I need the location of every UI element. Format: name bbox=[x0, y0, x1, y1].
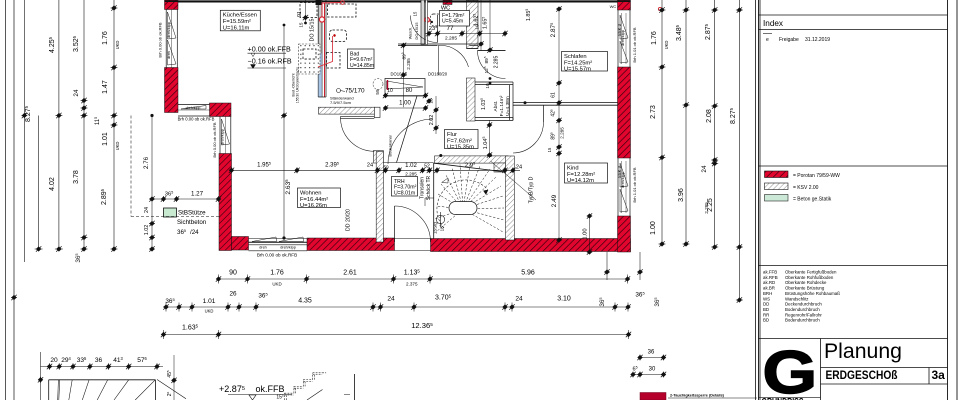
svg-text:20: 20 bbox=[50, 357, 58, 364]
svg-text:2.285: 2.285 bbox=[405, 172, 417, 177]
svg-text:RR: RR bbox=[763, 312, 769, 317]
svg-text:3.78: 3.78 bbox=[73, 170, 80, 184]
svg-text:31.12.2019: 31.12.2019 bbox=[805, 37, 830, 43]
svg-text:F=15.59m²: F=15.59m² bbox=[223, 19, 251, 25]
svg-text:1.00: 1.00 bbox=[650, 221, 657, 235]
svg-text:26: 26 bbox=[229, 291, 237, 298]
svg-text:ak.FFB: ak.FFB bbox=[763, 270, 777, 275]
svg-text:36: 36 bbox=[95, 357, 103, 364]
svg-text:StBStütze: StBStütze bbox=[178, 210, 206, 217]
svg-text:ak.RFB: ak.RFB bbox=[763, 275, 778, 280]
svg-text:15: 15 bbox=[413, 11, 418, 16]
svg-text:5.96: 5.96 bbox=[521, 270, 535, 277]
svg-text:1.02: 1.02 bbox=[405, 163, 417, 169]
svg-text:ERDGESCHOß: ERDGESCHOß bbox=[826, 368, 898, 382]
svg-text:15: 15 bbox=[299, 22, 304, 27]
svg-text:80: 80 bbox=[406, 88, 413, 94]
svg-text:= Beton ge.Statik: = Beton ge.Statik bbox=[793, 197, 832, 203]
svg-text:= KSV 2.00: = KSV 2.00 bbox=[793, 185, 819, 191]
svg-text:Schlafen: Schlafen bbox=[564, 54, 587, 60]
svg-text:1.76: 1.76 bbox=[270, 270, 284, 277]
svg-text:e: e bbox=[766, 37, 769, 43]
svg-text:1.76: 1.76 bbox=[102, 31, 109, 45]
svg-text:dreh/kipp: dreh/kipp bbox=[221, 129, 225, 145]
svg-text:BD: BD bbox=[763, 318, 769, 323]
svg-text:F=7.62m²: F=7.62m² bbox=[447, 138, 472, 144]
svg-text:4.02: 4.02 bbox=[49, 177, 56, 191]
svg-text:2.285: 2.285 bbox=[494, 56, 500, 69]
svg-text:Regenrohr/Fallrohr: Regenrohr/Fallrohr bbox=[785, 312, 822, 317]
svg-text:DD 20/20: DD 20/20 bbox=[346, 209, 352, 231]
svg-text:Küche/Essen: Küche/Essen bbox=[223, 13, 257, 19]
svg-text:24: 24 bbox=[387, 296, 395, 303]
svg-text:2.285: 2.285 bbox=[445, 36, 457, 42]
svg-text:Brh 0.00 ob ok.RFB: Brh 0.00 ob ok.RFB bbox=[212, 122, 217, 157]
svg-text:Wohnen: Wohnen bbox=[300, 190, 322, 196]
svg-text:Wasch.: Wasch. bbox=[409, 27, 413, 40]
svg-text:U=14.12m: U=14.12m bbox=[567, 178, 594, 184]
svg-text:DO 15/15: DO 15/15 bbox=[414, 22, 419, 40]
svg-text:15Stg: 15Stg bbox=[433, 222, 438, 234]
svg-text:F=1.14m²: F=1.14m² bbox=[499, 95, 505, 116]
svg-text:U=16.11m: U=16.11m bbox=[223, 26, 250, 32]
svg-text:= Porotan 79/59-WW: = Porotan 79/59-WW bbox=[793, 173, 840, 179]
svg-text:1.47: 1.47 bbox=[102, 80, 109, 94]
svg-text:75/170: 75/170 bbox=[345, 88, 365, 95]
svg-text:Brh 0.00 ob ok.RFB: Brh 0.00 ob ok.RFB bbox=[257, 253, 297, 258]
svg-text:1.01: 1.01 bbox=[102, 132, 109, 146]
svg-text:DO160/20: DO160/20 bbox=[428, 72, 448, 77]
svg-text:dreh: dreh bbox=[259, 246, 267, 250]
svg-text:61: 61 bbox=[551, 92, 557, 98]
svg-text:2.285: 2.285 bbox=[560, 127, 565, 139]
svg-text:Schöck TR: Schöck TR bbox=[426, 175, 432, 200]
svg-text:1.00: 1.00 bbox=[583, 228, 589, 239]
svg-text:1.00: 1.00 bbox=[399, 101, 411, 107]
svg-text:Deckendurchbruch: Deckendurchbruch bbox=[785, 302, 822, 307]
svg-text:1.02: 1.02 bbox=[144, 225, 150, 236]
svg-text:U=4.38m: U=4.38m bbox=[505, 96, 511, 116]
svg-text:WS: WS bbox=[763, 296, 770, 301]
svg-text:U=16.26m: U=16.26m bbox=[300, 203, 327, 209]
svg-text:2.375: 2.375 bbox=[406, 282, 418, 287]
svg-text:Brüstungshöhe Rohbaumaß: Brüstungshöhe Rohbaumaß bbox=[785, 291, 840, 296]
svg-text:2.61: 2.61 bbox=[343, 270, 357, 277]
svg-text:155:30 UK30(elektrisch): 155:30 UK30(elektrisch) bbox=[296, 67, 300, 103]
svg-text:WC: WC bbox=[610, 4, 617, 9]
svg-text:Planung: Planung bbox=[824, 339, 902, 363]
svg-text:3.96: 3.96 bbox=[678, 188, 685, 202]
svg-text:UKD: UKD bbox=[205, 309, 214, 314]
svg-text:15: 15 bbox=[547, 147, 552, 152]
svg-text:24: 24 bbox=[701, 165, 708, 173]
svg-text:Oberkante Fertigfußboden: Oberkante Fertigfußboden bbox=[785, 270, 837, 275]
svg-text:dreh: dreh bbox=[167, 51, 171, 59]
svg-text:BRH: BRH bbox=[763, 291, 772, 296]
svg-text:dreh/kipp: dreh/kipp bbox=[167, 22, 171, 38]
svg-text:3a: 3a bbox=[932, 368, 946, 382]
svg-text:U=15.35m: U=15.35m bbox=[447, 145, 474, 151]
svg-text:F=16.44m²: F=16.44m² bbox=[300, 197, 328, 203]
svg-text:2-Tauchigkeitssperre (Details): 2-Tauchigkeitssperre (Details) bbox=[670, 394, 725, 398]
svg-text:10: 10 bbox=[387, 88, 393, 94]
svg-text:UKD: UKD bbox=[115, 41, 120, 50]
svg-text:Oberkante Brüstung: Oberkante Brüstung bbox=[785, 286, 825, 291]
svg-text:1.01: 1.01 bbox=[203, 298, 216, 305]
svg-text:SSK 3: SSK 3 bbox=[617, 23, 622, 36]
svg-text:91: 91 bbox=[297, 11, 303, 17]
svg-text:2.02: 2.02 bbox=[429, 115, 435, 126]
svg-text:SSK 3: SSK 3 bbox=[617, 165, 622, 178]
svg-text:UKD: UKD bbox=[272, 282, 281, 287]
svg-text:U=14.85m: U=14.85m bbox=[350, 63, 374, 69]
svg-text:DO 15/15: DO 15/15 bbox=[310, 18, 316, 41]
svg-text:Oberkante Rohdecke: Oberkante Rohdecke bbox=[785, 280, 827, 285]
svg-text:1.76: 1.76 bbox=[651, 31, 658, 45]
svg-text:U=15.57m: U=15.57m bbox=[564, 67, 591, 73]
svg-text:77: 77 bbox=[446, 25, 454, 32]
svg-text:90: 90 bbox=[229, 270, 237, 277]
svg-text:Tronsolen: Tronsolen bbox=[420, 177, 426, 199]
svg-text:G: G bbox=[763, 338, 818, 400]
svg-text:Bodendurchbruch: Bodendurchbruch bbox=[785, 307, 820, 312]
svg-text:ak.RD: ak.RD bbox=[763, 280, 775, 285]
svg-text:−0.16 ok.RFB: −0.16 ok.RFB bbox=[248, 57, 292, 66]
svg-text:2.285: 2.285 bbox=[406, 58, 411, 70]
svg-text:2.73: 2.73 bbox=[650, 105, 657, 119]
svg-text:ak.BR: ak.BR bbox=[763, 286, 775, 291]
svg-text:dreh/kipp: dreh/kipp bbox=[280, 246, 296, 250]
svg-text:24: 24 bbox=[367, 163, 373, 169]
svg-text:+2.875: +2.875 bbox=[219, 384, 245, 394]
svg-text:Kind: Kind bbox=[567, 165, 579, 171]
svg-text:24: 24 bbox=[73, 89, 80, 97]
svg-text:U=8.01m: U=8.01m bbox=[394, 191, 415, 197]
svg-text:U=5.45m: U=5.45m bbox=[442, 19, 463, 25]
svg-text:Wandschlitz: Wandschlitz bbox=[785, 296, 809, 301]
svg-text:BD: BD bbox=[763, 307, 769, 312]
svg-text:Abst.: Abst. bbox=[493, 101, 499, 112]
svg-text:4.35: 4.35 bbox=[298, 298, 312, 305]
svg-text:50: 50 bbox=[383, 165, 389, 170]
svg-text:1.27: 1.27 bbox=[191, 191, 204, 198]
svg-text:Brh 1.01 ob ok.RFB: Brh 1.01 ob ok.RFB bbox=[632, 167, 637, 202]
svg-text:7.5/9/7.5cm: 7.5/9/7.5cm bbox=[330, 100, 352, 105]
svg-text:Bodenkanal: Bodenkanal bbox=[388, 135, 393, 156]
svg-text:2.285: 2.285 bbox=[704, 202, 709, 214]
svg-text:36: 36 bbox=[648, 350, 655, 356]
svg-text:DD: DD bbox=[763, 302, 769, 307]
svg-text:Sichtbeton: Sichtbeton bbox=[177, 219, 207, 226]
svg-text:Brh 0.00 ob ok.RFB: Brh 0.00 ob ok.RFB bbox=[178, 117, 215, 122]
svg-text:Brh 0.00 ob ok.RFB: Brh 0.00 ob ok.RFB bbox=[158, 22, 163, 57]
svg-text:10: 10 bbox=[429, 98, 434, 104]
svg-text:Brh 1.01 ob ok.RFB: Brh 1.01 ob ok.RFB bbox=[632, 27, 637, 62]
svg-text:3.10: 3.10 bbox=[557, 296, 571, 303]
svg-text:ok.FFB: ok.FFB bbox=[255, 384, 284, 394]
svg-text:F=14.25m²: F=14.25m² bbox=[564, 60, 592, 66]
svg-text:Freigabe: Freigabe bbox=[779, 37, 799, 43]
svg-text:/24: /24 bbox=[190, 229, 199, 236]
svg-text:24: 24 bbox=[144, 207, 150, 213]
svg-text:52: 52 bbox=[424, 164, 430, 170]
svg-text:24: 24 bbox=[515, 296, 523, 303]
svg-text:59: 59 bbox=[375, 89, 380, 95]
svg-text:12.365: 12.365 bbox=[411, 321, 433, 330]
svg-text:UKD: UKD bbox=[115, 142, 120, 151]
svg-text:Bodendurchbruch: Bodendurchbruch bbox=[785, 318, 820, 323]
svg-text:F=12.28m²: F=12.28m² bbox=[567, 172, 595, 178]
svg-text:30: 30 bbox=[649, 367, 656, 373]
svg-text:2.08: 2.08 bbox=[706, 109, 713, 123]
svg-text:TypB/Typ D: TypB/Typ D bbox=[529, 176, 535, 203]
svg-text:+0.00 ok.FFB: +0.00 ok.FFB bbox=[248, 45, 292, 54]
svg-text:UKD: UKD bbox=[664, 41, 669, 50]
svg-text:Flur: Flur bbox=[447, 132, 457, 138]
svg-text:24: 24 bbox=[516, 165, 522, 171]
svg-text:2.76: 2.76 bbox=[143, 156, 150, 169]
svg-text:2.49: 2.49 bbox=[551, 194, 558, 207]
svg-text:Index: Index bbox=[763, 19, 783, 28]
svg-text:dreh/kipp: dreh/kipp bbox=[186, 106, 201, 110]
svg-text:Oberkante Rohfußboden: Oberkante Rohfußboden bbox=[785, 275, 834, 280]
